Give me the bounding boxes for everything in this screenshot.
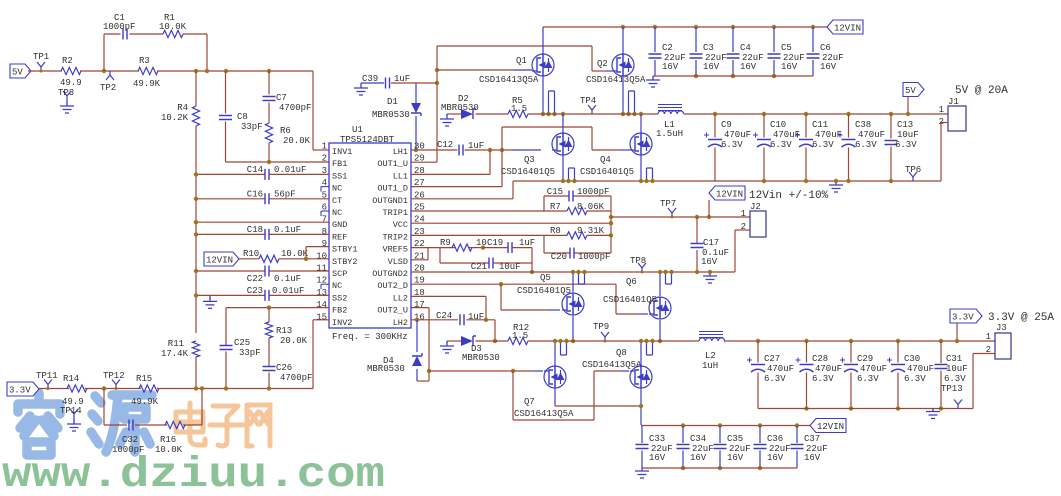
capacitor C21	[439, 248, 441, 263]
wire LL1	[411, 173, 490, 175]
junction	[205, 69, 209, 73]
resistor R3	[138, 67, 158, 74]
svg-text:C9: C9	[721, 120, 732, 130]
test point TP7	[668, 208, 676, 217]
transistor Q7 CSD16413Q5A	[544, 366, 566, 388]
capacitor C12	[459, 145, 463, 156]
svg-text:6.3V: 6.3V	[855, 140, 877, 150]
wire SS2 / capacitor C23	[196, 294, 265, 296]
svg-text:10: 10	[476, 238, 487, 248]
wire Q7 gate	[429, 370, 533, 372]
svg-text:8: 8	[322, 227, 327, 237]
svg-text:470uF: 470uF	[858, 130, 885, 140]
svg-text:Q2: Q2	[597, 59, 608, 69]
svg-text:1uF: 1uF	[519, 238, 535, 248]
wire Q6 source	[659, 271, 661, 296]
svg-text:TP6: TP6	[905, 165, 921, 175]
svg-text:2: 2	[322, 154, 327, 164]
junction	[194, 386, 198, 390]
svg-text:49.9: 49.9	[60, 78, 82, 88]
svg-text:16V: 16V	[701, 257, 718, 267]
svg-text:16V: 16V	[662, 62, 679, 72]
connector J1	[948, 106, 966, 131]
watermark 容	[18, 393, 60, 455]
watermark 电	[176, 403, 205, 445]
svg-text:R7: R7	[550, 202, 561, 212]
svg-text:C37: C37	[804, 434, 820, 444]
svg-text:6.3V: 6.3V	[944, 374, 966, 384]
wire GND pin7	[196, 221, 329, 223]
svg-text:TRIP1: TRIP1	[382, 208, 408, 218]
svg-text:1uH: 1uH	[702, 361, 718, 371]
svg-text:TP1: TP1	[33, 52, 49, 62]
capacitor C26	[268, 338, 270, 367]
svg-text:C20: C20	[551, 252, 567, 262]
resistor R2	[61, 67, 81, 74]
wire J2 pin2	[735, 229, 750, 231]
svg-text:16V: 16V	[767, 453, 784, 463]
capacitor C10	[762, 112, 766, 116]
capacitor C32	[129, 420, 133, 431]
svg-text:CSD16413Q5A: CSD16413Q5A	[514, 409, 574, 419]
ground	[703, 272, 717, 283]
svg-text:Q7: Q7	[524, 397, 535, 407]
wire TRIP1	[411, 210, 544, 212]
capacitor C36	[758, 423, 762, 427]
resistor R11	[192, 341, 199, 357]
resistor R6	[265, 123, 272, 143]
test point TP12	[112, 380, 120, 389]
capacitor C4	[731, 25, 735, 29]
capacitor C17	[696, 217, 698, 243]
svg-text:0.1uF: 0.1uF	[274, 225, 301, 235]
svg-text:17.4K: 17.4K	[161, 349, 189, 359]
svg-text:C11: C11	[812, 120, 828, 130]
svg-text:C33: C33	[649, 434, 665, 444]
wire bank2 ground bus	[642, 467, 797, 469]
svg-text:10.0K: 10.0K	[159, 22, 187, 32]
svg-text:C8: C8	[237, 112, 248, 122]
svg-text:R4: R4	[177, 103, 188, 113]
wire 12V bank2 top bus	[641, 425, 810, 427]
capacitor C9	[713, 112, 717, 116]
capacitor C28	[804, 339, 808, 343]
svg-text:SS1: SS1	[332, 171, 347, 181]
svg-text:STBY2: STBY2	[332, 257, 358, 267]
svg-text:0.01uF: 0.01uF	[274, 165, 306, 175]
svg-text:1.5uH: 1.5uH	[656, 129, 683, 139]
svg-text:20.0K: 20.0K	[280, 336, 308, 346]
svg-text:16V: 16V	[781, 62, 798, 72]
net flag 5V	[907, 96, 909, 114]
ground	[60, 100, 74, 113]
svg-text:C12: C12	[437, 140, 453, 150]
svg-text:5V: 5V	[12, 68, 23, 78]
wire OUT2_U drive	[411, 307, 429, 309]
svg-text:Q6: Q6	[626, 277, 637, 287]
svg-text:OUT1_U: OUT1_U	[377, 159, 408, 169]
svg-text:C25: C25	[234, 338, 250, 348]
svg-text:12VIN: 12VIN	[834, 24, 861, 34]
wire CT / capacitor C16	[196, 198, 265, 200]
svg-text:SS2: SS2	[332, 293, 347, 303]
svg-text:1000pF: 1000pF	[577, 187, 609, 197]
svg-text:Q1: Q1	[516, 56, 527, 66]
wire OUTGND2 bus	[411, 271, 735, 273]
test point TP14	[70, 409, 78, 418]
svg-text:TP7: TP7	[660, 199, 676, 209]
test point TP9	[601, 332, 609, 341]
wire INV2	[313, 319, 329, 321]
svg-text:C28: C28	[812, 354, 828, 364]
watermark 源	[91, 395, 152, 452]
wire LH1 net	[411, 149, 458, 151]
wire Q6 drain	[659, 320, 661, 341]
junction	[267, 160, 271, 164]
svg-text:0.01uF: 0.01uF	[272, 286, 304, 296]
resistor R10	[239, 258, 259, 260]
svg-text:CSD16413Q5A: CSD16413Q5A	[479, 75, 539, 85]
ground	[646, 76, 660, 87]
wire Q7 source	[554, 341, 556, 366]
svg-text:470uF: 470uF	[860, 364, 887, 374]
svg-text:C31: C31	[946, 354, 962, 364]
wire	[28, 70, 62, 72]
svg-text:TP11: TP11	[36, 371, 58, 381]
svg-text:56pF: 56pF	[274, 190, 296, 200]
ground	[67, 418, 81, 431]
svg-text:1: 1	[939, 105, 944, 115]
svg-text:10uF: 10uF	[499, 262, 521, 272]
svg-text:1uF: 1uF	[468, 141, 484, 151]
wire 12V top bus	[543, 26, 827, 28]
transistor Q5 CSD16401Q5	[562, 293, 584, 315]
diode D4 MBR0530	[416, 320, 418, 352]
svg-text:CSD16401Q5: CSD16401Q5	[603, 295, 657, 305]
svg-text:C24: C24	[436, 311, 452, 321]
svg-text:7: 7	[322, 215, 327, 225]
svg-text:1: 1	[986, 332, 991, 342]
svg-text:OUTGND1: OUTGND1	[372, 196, 408, 206]
svg-text:1000pF: 1000pF	[578, 252, 610, 262]
svg-text:NC: NC	[332, 281, 342, 291]
capacitor C38	[846, 112, 850, 116]
wire	[85, 388, 141, 390]
wire INV1	[312, 71, 314, 150]
wire	[157, 388, 313, 390]
svg-text:MBR0530: MBR0530	[372, 110, 410, 120]
ground	[440, 341, 454, 353]
watermark 网	[247, 405, 270, 446]
svg-text:12VIN: 12VIN	[206, 256, 233, 266]
wire FB1	[226, 161, 330, 163]
ground	[203, 295, 217, 308]
svg-text:Q5: Q5	[540, 273, 551, 283]
net flag 3.3V	[7, 382, 39, 396]
svg-text:R13: R13	[276, 326, 292, 336]
svg-text:12Vin +/-10%: 12Vin +/-10%	[749, 190, 829, 202]
net flag 12VIN	[810, 419, 846, 433]
watermark 子	[210, 406, 243, 446]
svg-text:R15: R15	[136, 374, 152, 384]
svg-text:TPS5124DBT: TPS5124DBT	[340, 135, 395, 145]
test point TP1	[37, 62, 45, 71]
wire STBY1 jog	[305, 247, 307, 259]
node TP2 junction	[102, 69, 106, 73]
svg-text:16V: 16V	[804, 453, 821, 463]
junction	[224, 386, 228, 390]
capacitor C7	[268, 71, 270, 95]
svg-text:TP4: TP4	[580, 96, 596, 106]
ground	[440, 114, 454, 126]
connector J3	[995, 333, 1011, 359]
capacitor C33	[641, 426, 643, 444]
svg-text:4700pF: 4700pF	[280, 373, 312, 383]
net flag 3.3V	[956, 323, 958, 341]
resistor R7	[543, 196, 545, 211]
svg-text:1: 1	[741, 209, 746, 219]
svg-text:6.3V: 6.3V	[904, 374, 926, 384]
svg-text:J1: J1	[948, 97, 959, 107]
diode D3 MBR0530	[461, 336, 473, 346]
svg-text:C4: C4	[740, 43, 751, 53]
junction	[267, 386, 271, 390]
net flag 12VIN	[709, 186, 745, 200]
inductor L1	[658, 105, 682, 111]
svg-text:6.3V: 6.3V	[857, 374, 879, 384]
wire C1/R1 loop	[103, 34, 105, 71]
capacitor C39	[361, 82, 384, 84]
capacitor C30	[896, 339, 900, 343]
svg-text:SCP: SCP	[332, 269, 347, 279]
wire FB2	[226, 307, 329, 309]
svg-text:C17: C17	[703, 238, 719, 248]
svg-text:11: 11	[316, 264, 327, 274]
svg-text:VLSD: VLSD	[388, 257, 408, 267]
svg-text:MBR0530: MBR0530	[441, 103, 479, 113]
svg-text:13: 13	[316, 288, 327, 298]
svg-text:OUT1_D: OUT1_D	[377, 184, 408, 194]
capacitor C24	[460, 314, 464, 325]
wire Q2 source	[622, 76, 624, 114]
svg-text:LL1: LL1	[393, 171, 408, 181]
svg-text:C5: C5	[781, 43, 792, 53]
svg-text:C10: C10	[770, 120, 786, 130]
svg-text:TP9: TP9	[593, 322, 609, 332]
svg-text:C34: C34	[690, 434, 706, 444]
test point TP6	[909, 172, 917, 181]
wire OUT2_D drive	[411, 283, 616, 285]
svg-text:C26: C26	[276, 363, 292, 373]
svg-text:L2: L2	[705, 351, 716, 361]
net flag 12VIN	[827, 20, 863, 34]
svg-text:LH1: LH1	[393, 147, 408, 157]
wire Q8 source	[640, 341, 642, 366]
capacitor C20	[543, 235, 545, 253]
svg-text:R3: R3	[139, 56, 150, 66]
capacitor C31	[939, 339, 943, 343]
ground	[635, 468, 649, 478]
wire ground bus	[195, 126, 197, 333]
svg-text:CSD16401Q5: CSD16401Q5	[501, 167, 555, 177]
junction	[267, 69, 271, 73]
svg-text:C21: C21	[471, 262, 487, 272]
resistor R5	[508, 110, 528, 117]
wire LL2	[411, 295, 486, 297]
resistor R1	[163, 30, 183, 37]
svg-text:TP2: TP2	[100, 83, 116, 93]
svg-text:C39: C39	[362, 74, 378, 84]
svg-text:C27: C27	[764, 354, 780, 364]
svg-text:INV1: INV1	[332, 147, 352, 157]
resistor R8	[544, 234, 567, 236]
svg-text:TRIP2: TRIP2	[382, 232, 408, 242]
svg-text:CSD16413Q5A: CSD16413Q5A	[582, 360, 642, 370]
capacitor C11	[804, 112, 808, 116]
capacitor C3	[694, 25, 698, 29]
svg-text:49.9K: 49.9K	[133, 79, 161, 89]
svg-text:C3: C3	[703, 43, 714, 53]
wire TRIP2	[411, 234, 544, 236]
wire C32/R16 loop	[103, 389, 105, 426]
wire Q3 source	[562, 155, 564, 181]
capacitor C27	[756, 339, 760, 343]
svg-text:LL2: LL2	[393, 293, 408, 303]
svg-text:15: 15	[316, 312, 327, 322]
wire REF / capacitor C18	[196, 233, 265, 235]
wire J3 pin2	[973, 353, 995, 355]
test point TP13	[954, 400, 962, 409]
svg-text:R14: R14	[63, 374, 79, 384]
transistor Q8 CSD16413Q5A	[630, 366, 652, 388]
wire Q1 gate	[437, 69, 514, 71]
svg-text:10uF: 10uF	[946, 364, 968, 374]
wire OUT1_D drive	[411, 186, 502, 188]
svg-text:FB1: FB1	[332, 159, 347, 169]
svg-text:6.3V: 6.3V	[764, 374, 786, 384]
transistor Q6 CSD16401Q5	[649, 297, 671, 319]
svg-text:470uF: 470uF	[724, 130, 751, 140]
wire SCP / capacitor C22	[196, 270, 265, 272]
wire VREF5 net	[411, 247, 428, 249]
svg-text:www.dziuu.com: www.dziuu.com	[2, 450, 385, 491]
svg-text:OUT2_U: OUT2_U	[377, 306, 408, 316]
wire Q7 drain	[554, 388, 556, 406]
svg-text:9: 9	[322, 239, 327, 249]
svg-text:C7: C7	[276, 93, 287, 103]
svg-text:U1: U1	[352, 125, 363, 135]
svg-text:C38: C38	[855, 120, 871, 130]
capacitor C5	[772, 25, 776, 29]
net flag 5V	[10, 64, 31, 78]
capacitor C13	[889, 112, 893, 116]
svg-text:3.3V: 3.3V	[952, 313, 974, 323]
inductor L2	[699, 332, 723, 338]
capacitor C34	[681, 423, 685, 427]
svg-text:CSD16401Q5: CSD16401Q5	[517, 286, 571, 296]
svg-text:16V: 16V	[703, 62, 720, 72]
capacitor C15	[544, 195, 569, 197]
svg-text:470uF: 470uF	[767, 364, 794, 374]
svg-text:Q3: Q3	[524, 155, 535, 165]
ground	[926, 409, 940, 419]
capacitor C35	[718, 423, 722, 427]
svg-text:R11: R11	[168, 339, 184, 349]
junction	[194, 69, 198, 73]
wire switch node 1	[447, 113, 461, 115]
svg-text:TP3: TP3	[58, 88, 74, 98]
diode D2 MBR0530	[461, 109, 473, 119]
svg-text:C19: C19	[487, 238, 503, 248]
svg-text:OUTGND2: OUTGND2	[372, 269, 408, 279]
wire 12V input node	[611, 216, 750, 218]
svg-text:10uF: 10uF	[897, 130, 919, 140]
svg-text:C15: C15	[547, 187, 563, 197]
capacitor C1	[123, 29, 127, 40]
wire Q5 drain	[572, 316, 574, 341]
svg-text:R8: R8	[550, 226, 561, 236]
wire Q5 source	[572, 271, 574, 292]
op-amp U1 TPS5124DBT IC body	[329, 143, 411, 328]
svg-text:R2: R2	[62, 56, 73, 66]
resistor R13	[268, 308, 270, 322]
svg-text:Q4: Q4	[600, 155, 611, 165]
svg-text:9.31K: 9.31K	[577, 226, 605, 236]
svg-text:C2: C2	[662, 43, 673, 53]
wire output2 ground bus	[758, 408, 973, 410]
wire	[531, 248, 533, 272]
svg-text:R6: R6	[280, 126, 291, 136]
svg-text:STBY1: STBY1	[332, 245, 358, 255]
resistor R15	[139, 385, 159, 392]
svg-text:C30: C30	[904, 354, 920, 364]
svg-text:10.0K: 10.0K	[155, 445, 183, 455]
capacitor C25	[225, 308, 227, 346]
svg-text:10: 10	[316, 251, 327, 261]
svg-text:1uF: 1uF	[468, 312, 484, 322]
wire switch node 2	[447, 340, 461, 342]
svg-text:J3: J3	[996, 323, 1007, 333]
transistor Q1 CSD16413Q5A	[542, 27, 544, 54]
resistor R16	[165, 421, 185, 428]
svg-text:R16: R16	[160, 435, 176, 445]
wire SS1 / capacitor C14	[196, 173, 265, 175]
svg-text:1000pF: 1000pF	[112, 445, 144, 455]
svg-text:6.3V: 6.3V	[812, 140, 834, 150]
wire VCC	[411, 222, 611, 224]
svg-text:5V @ 20A: 5V @ 20A	[955, 85, 1008, 97]
svg-text:INV2: INV2	[332, 318, 352, 328]
ground	[354, 83, 368, 95]
resistor R4	[195, 71, 197, 106]
svg-text:1uF: 1uF	[394, 74, 410, 84]
svg-text:CSD16401Q5: CSD16401Q5	[580, 167, 634, 177]
resistor R14	[67, 385, 87, 392]
svg-text:REF: REF	[332, 232, 347, 242]
transistor Q4 CSD16401Q5	[639, 112, 643, 116]
svg-text:NC: NC	[332, 184, 342, 194]
svg-text:6.3V: 6.3V	[812, 374, 834, 384]
svg-text:16V: 16V	[727, 453, 744, 463]
test point TP11	[44, 380, 52, 389]
wire Q4 source	[640, 155, 642, 181]
svg-text:3.3V: 3.3V	[9, 386, 31, 396]
svg-text:12VIN: 12VIN	[716, 190, 743, 200]
svg-text:MBR0530: MBR0530	[462, 353, 500, 363]
svg-text:6.3V: 6.3V	[895, 140, 917, 150]
wire input cap ground bus	[653, 75, 813, 77]
svg-text:D1: D1	[387, 97, 398, 107]
